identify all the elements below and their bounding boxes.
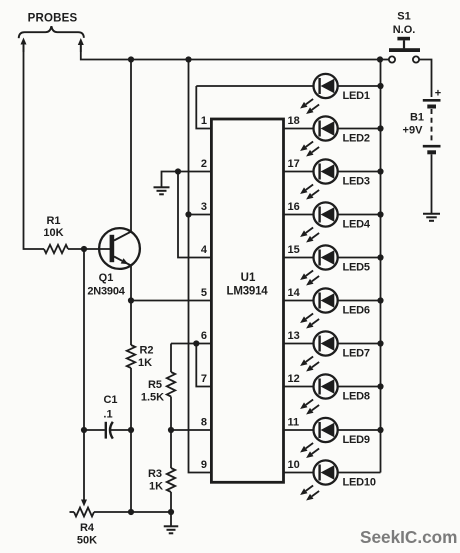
pin 2 stub [178, 171, 211, 173]
wire R5 to pin8 row [170, 397, 172, 431]
resistor R2 zigzag [127, 345, 135, 368]
junction R2/C1 row [128, 427, 134, 433]
right probe lead / top supply bus wire [80, 45, 82, 52]
capacitor C1 curved plate [110, 422, 113, 439]
junction bus/LED3 [377, 168, 383, 174]
transistor Q1 collector stroke [114, 232, 131, 241]
capacitor C1 left lead [84, 429, 105, 431]
svg-text:LED6: LED6 [343, 305, 370, 317]
ground (bottom) [164, 525, 179, 527]
LED1 emission arrows [306, 99, 313, 104]
wire LED9 row [284, 429, 381, 431]
svg-text:1K: 1K [149, 481, 163, 493]
svg-text:LM3914: LM3914 [227, 286, 269, 298]
svg-text:1: 1 [201, 115, 207, 127]
junction R5/pin8/R3 [168, 427, 174, 433]
battery B1 dashed link [431, 109, 433, 144]
LED8 emission arrows [306, 400, 313, 405]
svg-text:14: 14 [288, 287, 301, 299]
wire LED7 row [284, 343, 381, 345]
pin 7 stub / wire to pin 6 [196, 344, 211, 387]
wire pin6 to R5 [170, 344, 172, 373]
wire LED10 row [284, 472, 381, 474]
wire R4 to ground node [94, 511, 171, 513]
resistor R1 zigzag [44, 245, 68, 253]
svg-text:R3: R3 [148, 468, 162, 480]
junction bus/collector [128, 56, 134, 62]
wire LED5 row [284, 257, 381, 259]
wire R1 to Q1 base [68, 248, 110, 250]
pin 5 stub [131, 300, 211, 302]
svg-text:LED8: LED8 [343, 391, 370, 403]
LED6 symbol [314, 288, 338, 312]
wire collector to bus [130, 60, 132, 232]
svg-text:10K: 10K [43, 227, 63, 239]
resistor R3 zigzag [167, 468, 175, 492]
LED7 symbol [314, 331, 338, 355]
junction C1 left [81, 427, 87, 433]
capacitor C1 flat plate [105, 422, 107, 439]
op-amp U1 LM3914 body [211, 119, 283, 482]
LED supply bus wire [380, 60, 382, 473]
svg-text:4: 4 [201, 244, 208, 256]
LED2 symbol [314, 116, 338, 140]
pin 1 stub [196, 86, 211, 129]
switch S1 button [397, 37, 410, 41]
wire LED4 row [284, 214, 381, 216]
transistor Q1 emitter stroke with arrow [114, 257, 122, 261]
junction V+/pin3 [185, 211, 191, 217]
LED5 symbol [314, 245, 338, 269]
svg-text:.1: .1 [103, 409, 112, 421]
LED9 emission arrows [306, 443, 313, 448]
svg-text:Q1: Q1 [99, 272, 114, 284]
svg-text:18: 18 [288, 115, 300, 127]
svg-text:PROBES: PROBES [28, 13, 78, 25]
ground (pin 2) [154, 186, 170, 188]
junction base/C1 chain [81, 246, 87, 252]
junction bus/LED8 [377, 383, 383, 389]
wire C1 to R4 wiper arrow [83, 430, 85, 500]
pin 8 stub [171, 429, 211, 431]
wire to bottom ground [170, 512, 172, 526]
svg-text:R5: R5 [148, 379, 162, 391]
svg-text:S1: S1 [397, 11, 410, 23]
probe brace [19, 26, 84, 38]
svg-text:R2: R2 [139, 345, 153, 357]
svg-text:17: 17 [288, 158, 300, 170]
LED10 symbol [314, 460, 338, 484]
svg-text:C1: C1 [103, 394, 117, 406]
LED1 symbol [314, 74, 338, 98]
junction bus/LED6 [377, 297, 383, 303]
resistor R4 left stub [70, 511, 75, 513]
svg-text:11: 11 [288, 417, 300, 429]
switch S1 left terminal [389, 56, 395, 62]
svg-text:LED5: LED5 [343, 262, 370, 274]
pin 3 stub [189, 214, 212, 216]
transistor Q1 circle [99, 228, 140, 269]
junction bottom wire/R2 chain [128, 509, 134, 515]
wire LED1 row [196, 85, 380, 87]
wire LED8 row [284, 386, 381, 388]
resistor R4 zigzag [74, 508, 94, 517]
LED3 emission arrows [306, 185, 313, 190]
svg-text:9: 9 [201, 459, 207, 471]
svg-text:3: 3 [201, 201, 207, 213]
svg-text:7: 7 [201, 373, 207, 385]
wire LED3 row [284, 171, 381, 173]
svg-text:LED7: LED7 [343, 348, 370, 360]
svg-text:15: 15 [288, 244, 300, 256]
wire base node to C1 [83, 249, 85, 430]
svg-text:6: 6 [201, 330, 207, 342]
svg-text:2N3904: 2N3904 [87, 286, 125, 298]
LED2 emission arrows [306, 142, 313, 147]
wire pin5 node to R2 [130, 301, 132, 346]
wire battery to ground [431, 154, 433, 213]
LED10 emission arrows [306, 486, 313, 491]
svg-text:N.O.: N.O. [393, 24, 416, 36]
junction pin6/pin7 [193, 340, 199, 346]
svg-text:R4: R4 [80, 522, 95, 534]
junction pin2/pin4/ground [175, 168, 181, 174]
svg-text:13: 13 [288, 330, 300, 342]
svg-text:5: 5 [201, 287, 207, 299]
LED4 symbol [314, 202, 338, 226]
transistor Q1 base bar [110, 235, 115, 262]
svg-text:10: 10 [288, 459, 300, 471]
LED3 symbol [314, 159, 338, 183]
svg-text:1K: 1K [138, 357, 152, 369]
svg-text:U1: U1 [241, 272, 256, 284]
wire bus to S1 left terminal [381, 59, 390, 61]
junction bus/LED1 [377, 83, 383, 89]
LED9 symbol [314, 418, 338, 442]
LED4 emission arrows [306, 228, 313, 233]
svg-text:8: 8 [201, 417, 207, 429]
LED5 emission arrows [306, 271, 313, 276]
resistor R5 zigzag [167, 372, 175, 397]
capacitor C1 right lead [111, 429, 132, 431]
svg-text:50K: 50K [77, 535, 97, 547]
svg-text:LED4: LED4 [343, 219, 371, 231]
svg-text:LED2: LED2 [343, 133, 370, 145]
junction bus/LED5 [377, 254, 383, 260]
battery B1 top cell [423, 99, 441, 102]
junction bus/LED4 [377, 211, 383, 217]
wire LED2 row [284, 128, 381, 130]
ground (battery) [423, 213, 440, 215]
svg-text:LED9: LED9 [343, 434, 370, 446]
junction bus/V+ line [185, 56, 191, 62]
LED6 emission arrows [306, 314, 313, 319]
wire emitter to pin5 node [130, 266, 132, 301]
junction bus/LED9 [377, 427, 383, 433]
svg-text:16: 16 [288, 201, 300, 213]
wire R3 to ground wire [170, 492, 172, 512]
pin 6 stub [171, 343, 211, 345]
svg-text:SeekIC.com: SeekIC.com [360, 527, 457, 547]
V+ wire bus to pin 9 [189, 60, 212, 473]
wire pin8 row to R3 [170, 430, 172, 468]
svg-text:+9V: +9V [403, 125, 424, 137]
wire LED6 row [284, 300, 381, 302]
svg-text:LED1: LED1 [343, 90, 370, 102]
svg-text:1.5K: 1.5K [141, 392, 164, 404]
junction bus/LED2 [377, 125, 383, 131]
battery B1 bottom cell [423, 145, 441, 148]
wire pin2 to ground [162, 172, 179, 187]
svg-text:B1: B1 [410, 112, 424, 124]
junction emitter/pin5/R2 [128, 297, 134, 303]
switch S1 right terminal [413, 56, 419, 62]
junction bus/LED7 [377, 340, 383, 346]
LED7 emission arrows [306, 357, 313, 362]
junction bus/S1 [377, 56, 383, 62]
wire S1 to battery [419, 60, 431, 98]
svg-text:+: + [435, 88, 441, 100]
svg-text:2: 2 [201, 158, 207, 170]
wire C1 row to bottom [130, 430, 132, 512]
svg-text:12: 12 [288, 373, 300, 385]
pin 4 stub / wire to pin 2 [178, 172, 211, 258]
LED8 symbol [314, 374, 338, 398]
left probe lead wire [23, 45, 25, 53]
wire R2 to C1 row [130, 368, 132, 430]
svg-text:LED10: LED10 [343, 477, 376, 489]
svg-text:R1: R1 [46, 215, 60, 227]
svg-text:LED3: LED3 [343, 176, 370, 188]
junction ground wire/R3 [168, 509, 174, 515]
